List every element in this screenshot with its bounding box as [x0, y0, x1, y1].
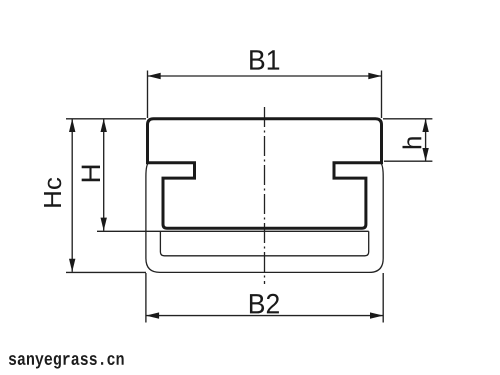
- node label B2: [250, 294, 279, 314]
- arrow B2 right: [370, 312, 383, 318]
- node label B1: [250, 50, 279, 69]
- node label H: [82, 166, 100, 182]
- wire B2 dimension line: [146, 315, 383, 317]
- arrow H top: [101, 119, 107, 132]
- wire extension line bottom-right (h): [384, 160, 432, 162]
- wire extension line bottom-left (Hc): [66, 271, 146, 273]
- wire h dimension line: [425, 119, 427, 161]
- node watermark sanyegrass.cn: [9, 355, 124, 369]
- wire B1 dimension line: [148, 75, 382, 77]
- wire Hc dimension line: [71, 119, 73, 272]
- node label Hc: [44, 178, 61, 207]
- cap profile (thick section outline): [148, 119, 382, 228]
- arrow h top: [422, 119, 428, 132]
- arrow B2 left: [146, 312, 159, 318]
- arrow B1 right: [368, 73, 381, 79]
- channel outer outline: [146, 163, 383, 273]
- wire B2 extension lines: [146, 273, 383, 323]
- wire extension line top-left: [66, 118, 146, 120]
- arrow B1 left: [148, 73, 161, 79]
- wire extension line top-right (h): [383, 118, 432, 120]
- arrow Hc top: [69, 119, 75, 132]
- arrow H bottom: [101, 218, 107, 231]
- node inner-floor line / H extension line: [97, 230, 369, 232]
- wire H dimension line: [103, 119, 105, 231]
- arrow h bottom: [422, 148, 428, 161]
- channel inner outline: [160, 231, 368, 256]
- node label h: [403, 137, 422, 148]
- centerline: [264, 107, 266, 284]
- arrow Hc bottom: [69, 259, 75, 272]
- wire B1 extension lines: [148, 71, 382, 119]
